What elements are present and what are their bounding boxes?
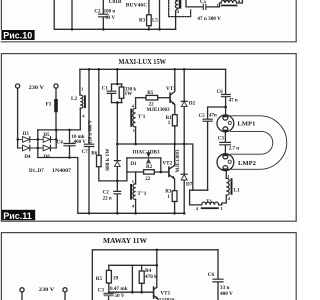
svg-text:C2: C2: [103, 190, 110, 195]
svg-text:C5: C5: [199, 114, 206, 119]
resistor R3 1: [172, 191, 177, 215]
svg-text:4: 4: [132, 103, 135, 108]
svg-text:VT1: VT1: [160, 291, 170, 297]
svg-text:D7: D7: [186, 181, 193, 187]
svg-text:1: 1: [167, 195, 170, 200]
svg-text:22: 22: [149, 102, 155, 107]
svg-text:R3: R3: [139, 19, 146, 24]
wire terminal1 down to bridge: [17, 88, 19, 148]
svg-text:BUV46C: BUV46C: [126, 2, 147, 8]
resistor R5 39: [106, 265, 111, 292]
capacitor C5 47n: [203, 107, 226, 190]
resistor R6 680k 1W: [97, 69, 118, 181]
svg-text:1: 1: [81, 86, 84, 91]
svg-text:1N4007: 1N4007: [52, 169, 72, 174]
svg-text:4: 4: [228, 196, 231, 201]
svg-text:230 V: 230 V: [29, 85, 44, 91]
label 330k 1W: [125, 87, 137, 97]
inductor L1: [219, 171, 233, 205]
svg-text:T'1: T'1: [138, 114, 146, 120]
bracket R5/R4 top: [109, 264, 157, 266]
svg-text:F1: F1: [46, 102, 52, 108]
wire line B to bottom rail: [70, 158, 78, 214]
terminal input 2: [54, 84, 58, 88]
diac symbol: [127, 153, 161, 163]
capacitor C6 47n: [222, 69, 231, 108]
capacitor C7 120n 400V: [84, 69, 93, 214]
capacitor C5 (panel1) 47n 300V: [186, 0, 219, 10]
capacitor C6 33n 400V: [213, 250, 223, 300]
transformer T1: [201, 202, 219, 209]
svg-text:C7: C7: [82, 150, 89, 155]
bridge column R: [55, 130, 57, 148]
svg-text:Рис.11: Рис.11: [3, 211, 32, 221]
svg-text:D1..D7: D1..D7: [29, 169, 44, 174]
svg-text:1: 1: [220, 206, 223, 211]
svg-text:100 n: 100 n: [104, 10, 116, 15]
label C2 100n 63V: [94, 10, 115, 21]
label R3 1.5: [139, 19, 158, 24]
svg-text:680 k 1W: 680 k 1W: [106, 148, 111, 171]
svg-text:1W: 1W: [125, 92, 133, 97]
transformer winding T (panel1, cut): [175, 0, 181, 29]
svg-text:D6: D6: [44, 155, 51, 160]
svg-text:400 V: 400 V: [220, 291, 233, 297]
svg-text:47 n 300 V: 47 n 300 V: [197, 17, 221, 22]
svg-text:D5: D5: [43, 133, 50, 138]
capacitor C4 10mk 400V: [64, 130, 75, 158]
capacitor C1 + resistor 330k 1W parallel pair: [107, 69, 124, 144]
transformer winding T'1: [130, 98, 135, 144]
junction dots bridge: [17, 129, 71, 159]
svg-text:230 V: 230 V: [39, 287, 55, 293]
svg-text:VT2: VT2: [162, 160, 172, 166]
wire x132 column: [131, 265, 133, 292]
resistor R3 (panel1) 1.5: [147, 0, 152, 31]
svg-text:R2: R2: [146, 165, 153, 170]
diode D4: [18, 145, 56, 151]
svg-text:22 n: 22 n: [103, 197, 112, 202]
svg-text:C5: C5: [200, 0, 207, 5]
dashed coupling line: [169, 0, 191, 17]
svg-text:39: 39: [113, 276, 119, 282]
svg-text:120 n 400 V: 120 n 400 V: [89, 119, 94, 144]
svg-text:C1: C1: [102, 86, 109, 91]
svg-text:MAWAY 11W: MAWAY 11W: [103, 238, 147, 245]
bridge line B (bottom): [38, 157, 70, 159]
bottom rail: [78, 212, 184, 214]
lamp LMP1: [217, 107, 234, 132]
svg-text:D1: D1: [130, 161, 137, 167]
lamp LMP2: [217, 154, 234, 171]
inductor L1 (panel1): [219, 0, 242, 7]
svg-text:T''1: T''1: [137, 191, 146, 197]
svg-text:C2: C2: [94, 10, 101, 15]
svg-text:1: 1: [227, 174, 230, 179]
label 10mk 400V: [71, 135, 86, 145]
svg-text:R6: R6: [91, 151, 98, 156]
terminal input 2: [63, 288, 67, 292]
svg-text:C4: C4: [57, 140, 64, 145]
svg-text:MJE13003: MJE13003: [176, 149, 181, 173]
svg-text:22: 22: [145, 177, 151, 182]
svg-text:63 V: 63 V: [105, 16, 115, 21]
wire bottom rail panel1: [54, 0, 175, 29]
wire midpoint to T1: [184, 144, 202, 205]
svg-text:C3: C3: [98, 288, 105, 294]
wire diac to VT2 base node: [160, 158, 162, 172]
top rail panel3: [92, 250, 218, 300]
terminal input 1: [20, 288, 24, 292]
inductor L2: [80, 69, 86, 130]
wire: [64, 292, 66, 300]
capacitor C3 2.7n: [220, 132, 231, 154]
svg-text:D3: D3: [23, 132, 30, 137]
panel Fig.11 border: [1, 54, 296, 222]
svg-text:D2: D2: [189, 100, 196, 106]
wire: [21, 292, 23, 300]
svg-text:0.47 mk: 0.47 mk: [110, 286, 128, 292]
svg-text:L1: L1: [224, 0, 230, 3]
svg-text:T1: T1: [206, 199, 212, 205]
svg-text:LMP1: LMP1: [237, 121, 255, 127]
diode D6: [43, 145, 50, 151]
diode D1: [114, 144, 120, 181]
svg-text:C81B: C81B: [109, 0, 122, 5]
midpoint node line: [117, 143, 184, 145]
svg-text:MJE13003: MJE13003: [147, 108, 171, 113]
svg-text:C6: C6: [208, 272, 215, 278]
svg-text:1: 1: [168, 121, 171, 126]
svg-text:D4: D4: [24, 155, 31, 160]
wire C5 branch: [193, 189, 208, 191]
bridge column M: [37, 130, 39, 158]
svg-text:47n: 47n: [209, 114, 217, 119]
svg-text:1: 1: [132, 179, 135, 184]
resistor R5 22: [136, 95, 170, 100]
node D1/C2/R6 line: [117, 158, 127, 181]
svg-text:R5: R5: [96, 276, 103, 282]
transistor VT2 MJE13003: [169, 144, 175, 191]
svg-text:4: 4: [82, 113, 85, 118]
wire column x72: [71, 0, 73, 29]
svg-text:4: 4: [196, 206, 199, 211]
svg-text:R5: R5: [147, 91, 154, 96]
svg-text:4: 4: [132, 203, 135, 208]
resistor R1 1: [172, 115, 177, 144]
transistor VT1 panel3: [154, 287, 159, 300]
svg-text:4: 4: [177, 9, 180, 14]
wire VT1 collector column: [156, 250, 158, 287]
transistor VT1 MJE13003: [170, 69, 175, 114]
top rail: [80, 68, 226, 70]
resistor R4 470k: [139, 265, 144, 292]
svg-text:Рис.10: Рис.10: [3, 31, 32, 41]
svg-text:L2: L2: [71, 96, 77, 102]
wire column x159.5: [159, 0, 161, 29]
capacitor C2 22n: [114, 181, 121, 215]
svg-text:1.5: 1.5: [152, 19, 159, 24]
fuse F1: [54, 88, 58, 130]
svg-text:47 n: 47 n: [229, 98, 238, 103]
capacitor C3 0.47mk 50V (electrolytic): [104, 292, 114, 300]
fluorescent tube outline: [231, 116, 287, 170]
figure label box Рис.11: [1, 210, 35, 221]
diode D3: [18, 137, 56, 143]
svg-text:470 k: 470 k: [145, 274, 157, 280]
svg-text:50 V: 50 V: [114, 293, 124, 299]
capacitor C2 (panel1) 100n 63V: [99, 0, 108, 31]
svg-text:2.7 n: 2.7 n: [229, 147, 240, 152]
bridge line A (top): [38, 129, 80, 131]
diode D5: [43, 137, 50, 143]
terminal input 1: [16, 84, 20, 88]
svg-text:VT1: VT1: [166, 86, 176, 92]
panel Fig.10 border: [1, 0, 296, 42]
svg-text:LMP2: LMP2: [238, 161, 256, 167]
svg-text:C3: C3: [218, 137, 225, 142]
svg-text:C6: C6: [217, 90, 224, 95]
base node line: [109, 291, 153, 293]
transformer winding T''1: [130, 172, 137, 215]
resistor R2 22: [127, 170, 169, 174]
figure label box Рис.10: [1, 30, 34, 41]
junction dot: [71, 28, 74, 31]
svg-text:MAXI-LUX 15W: MAXI-LUX 15W: [119, 59, 167, 66]
diode D7: [181, 144, 187, 215]
panel Fig.12 border: [1, 233, 296, 300]
diode D2: [181, 69, 187, 144]
svg-text:L1: L1: [234, 187, 240, 193]
